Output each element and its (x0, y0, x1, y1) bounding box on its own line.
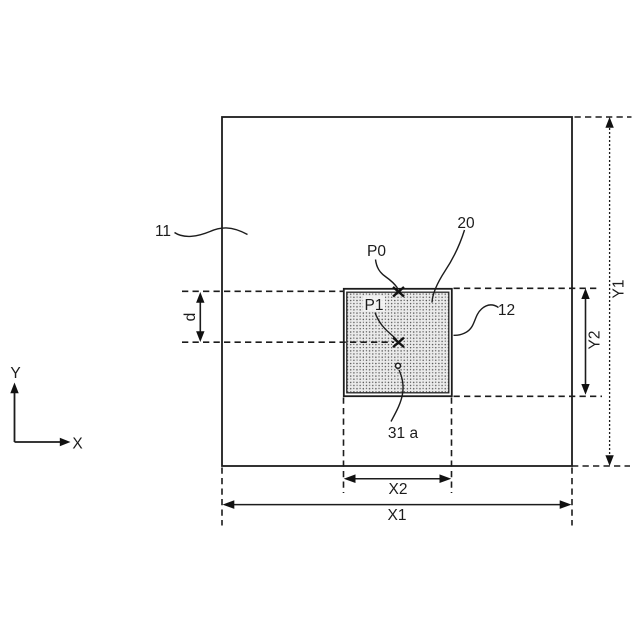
dashed extension bottom-right y466 (572, 465, 630, 467)
svg-text:20: 20 (457, 215, 475, 232)
svg-text:P1: P1 (365, 297, 384, 314)
dimension d top arrowhead (196, 292, 204, 303)
svg-text:11: 11 (155, 223, 171, 240)
dimension X1 right arrowhead (560, 500, 572, 509)
svg-text:X: X (72, 436, 83, 453)
substrate 11 outline (222, 117, 572, 466)
leader 11 (175, 228, 248, 236)
svg-text:Y1: Y1 (611, 280, 628, 299)
dimension d bottom arrowhead (196, 331, 204, 342)
dimension Y2 top arrowhead (581, 288, 589, 299)
dashed line bottom of region right segment (454, 395, 603, 397)
dashed extension X2 left vertical (343, 398, 345, 494)
dimension Y1 top arrowhead (605, 117, 613, 128)
svg-text:X2: X2 (389, 481, 408, 498)
dashed line top of region left segment (182, 290, 343, 292)
region 20 inner border with stipple fill (347, 292, 449, 393)
dimension Y1 dotted line (609, 120, 611, 463)
leader P0 (376, 260, 398, 289)
dimension X2 line (347, 478, 448, 480)
svg-text:12: 12 (498, 302, 515, 319)
dashed center line through P1 (182, 341, 394, 343)
axis X line (15, 441, 62, 443)
dimension X2 left arrowhead (344, 474, 356, 483)
dashed extension top-right y117 (572, 116, 632, 118)
dimension X1 left arrowhead (223, 500, 235, 509)
leader P1 (375, 313, 397, 340)
dashed extension X1 left vertical (221, 468, 223, 526)
svg-text:X1: X1 (388, 507, 407, 524)
dimension d line (199, 295, 201, 340)
point P1 cross (393, 338, 404, 348)
svg-text:31 a: 31 a (388, 425, 419, 442)
dimension X1 line (226, 504, 568, 506)
dashed line top of region right segment (454, 287, 601, 289)
dimension Y2 bottom arrowhead (581, 384, 589, 395)
dimension Y1 bottom arrowhead (605, 455, 613, 466)
svg-text:d: d (182, 313, 199, 322)
dashed extension X1 right vertical (571, 468, 573, 526)
leader 12 (454, 305, 499, 335)
dimension X2 right arrowhead (440, 474, 452, 483)
region 20 outer border (344, 289, 452, 396)
svg-text:Y2: Y2 (586, 331, 603, 350)
leader 31a (391, 370, 403, 422)
axis Y arrowhead (10, 383, 18, 394)
leader 20 (432, 230, 465, 303)
point 31a circle marker (396, 363, 401, 368)
dimension Y2 line (585, 291, 587, 392)
svg-text:P0: P0 (367, 243, 386, 260)
axis Y line (14, 392, 16, 442)
svg-text:Y: Y (10, 365, 20, 382)
label P1 (363, 296, 385, 311)
dashed extension X2 right vertical (451, 398, 453, 494)
point P0 cross (393, 287, 404, 297)
axis X arrowhead (60, 438, 71, 446)
